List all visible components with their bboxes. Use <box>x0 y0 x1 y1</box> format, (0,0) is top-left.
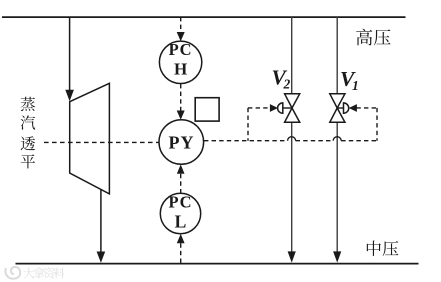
arrowhead into PC-H <box>177 32 185 41</box>
svg-text:H: H <box>174 59 187 78</box>
dashed signal: bottom rail to PC-L <box>180 243 182 263</box>
V1 actuator link line <box>337 107 343 109</box>
wire: V1 branch line lower <box>336 122 338 252</box>
dashed line from turbine label to PY <box>44 141 159 143</box>
V2 actuator arc <box>278 103 283 113</box>
dashed signal: PY output to valve risers <box>204 140 288 142</box>
wire: turbine exhaust to medium-pressure rail <box>100 189 102 252</box>
label 蒸汽透平 (steam turbine), vertical <box>21 97 36 169</box>
auxiliary square block <box>195 98 219 121</box>
arrowhead into V2 <box>270 104 278 112</box>
V2 actuator link line <box>283 107 292 109</box>
svg-text:PC: PC <box>169 40 193 59</box>
watermark logo <box>5 267 20 279</box>
svg-text:PY: PY <box>169 132 195 152</box>
hop over V1 line <box>333 137 341 141</box>
valve V2 body <box>285 94 300 108</box>
watermark text <box>23 267 64 278</box>
arrowhead onto bottom rail <box>97 252 106 263</box>
dashed signal to V2 <box>248 107 271 109</box>
arrowhead into V1 <box>349 104 357 112</box>
wire: V1 branch line upper <box>336 17 338 94</box>
controller PY circle <box>159 120 204 165</box>
wire: steam inlet from header to turbine <box>69 17 71 91</box>
svg-text:PC: PC <box>169 192 193 211</box>
arrowhead up into PY bottom <box>177 164 185 173</box>
dashed riser to V2 signal <box>247 108 249 141</box>
arrowhead up into PC-L bottom <box>177 234 185 243</box>
turbine (蒸汽透平) body <box>70 83 110 194</box>
dashed riser to V1 signal <box>376 108 378 141</box>
controller PC-H circle <box>159 41 201 83</box>
controller PC-L circle <box>160 193 200 233</box>
svg-text:2: 2 <box>283 77 291 92</box>
dashed signal: top rail to PC-H <box>180 17 182 33</box>
dashed signal: PC-H to PY <box>180 84 182 111</box>
dashed signal between hops <box>296 140 334 142</box>
V1 actuator arc <box>344 103 349 113</box>
dashed signal to V1 <box>356 107 377 109</box>
svg-text:L: L <box>175 211 187 231</box>
wire: medium-pressure rail (bottom) <box>16 263 419 265</box>
arrowhead into turbine <box>65 90 74 102</box>
wire: V2 branch line upper <box>291 17 293 94</box>
dashed signal after V1 hop <box>341 140 377 142</box>
hop over V2 line <box>288 137 296 141</box>
arrowhead V1 line onto bottom rail <box>333 251 341 262</box>
label 高压 (high pressure) <box>356 29 390 46</box>
arrowhead V2 line onto bottom rail <box>288 251 296 262</box>
wire: V2 branch line lower <box>291 122 293 252</box>
label 中压 (medium pressure) <box>367 241 399 257</box>
dashed signal: PC-L to PY <box>180 174 182 193</box>
svg-text:1: 1 <box>352 78 359 93</box>
wire: high-pressure header rail (top) <box>2 16 406 18</box>
arrowhead into PY <box>177 111 185 120</box>
valve V1 body <box>330 94 345 108</box>
